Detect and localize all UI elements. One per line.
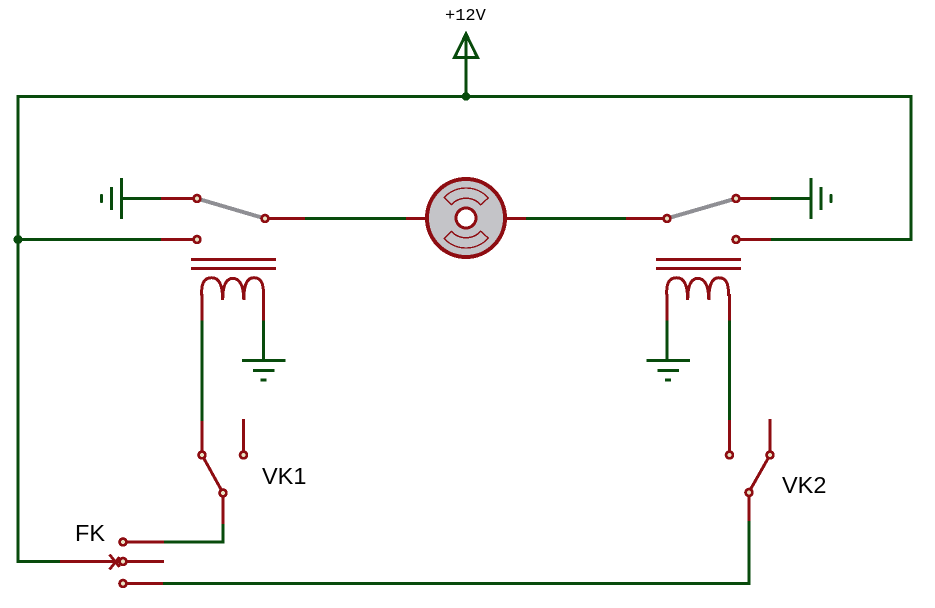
wire: K2 NO pin to battery B2 [771,197,811,200]
node: junction of +12V with top bus [462,92,471,101]
pin: VK2 right [767,452,774,459]
contact arm: K1 movable blade (gray) [197,199,265,219]
pin: K2 NO [733,195,740,202]
wire: L1 left lead down [201,321,204,422]
ground GND1 [242,361,286,381]
pin stub: K2 NO contact pin [740,197,771,200]
wire: K2 lower pin to right bus [771,238,912,241]
pin stub: FK pin 1 [126,541,164,544]
pin: K1 common [262,215,269,222]
svg-text:+12V: +12V [445,7,487,26]
pin stub: VK1 common lead [222,497,225,524]
relay coil L2 core [656,260,741,269]
pin stub: L2 right lead [728,294,731,321]
battery B2 (right) [811,178,831,219]
wire: L2 left lead to ground [666,321,669,361]
pin: K1 lower [194,236,201,243]
relay coil L2 winding [667,278,729,300]
svg-text:VK2: VK2 [782,472,826,498]
pin stub: FK pin 3 [126,582,163,585]
relay coil L1 winding [202,278,264,300]
pin stub: VK2 left pin lead [728,420,731,452]
pin stub: VK2 NC floating pin [769,419,772,451]
pin: K2 lower [733,236,740,243]
switch VK1 arm [202,455,223,493]
pin: VK2 common [746,489,753,496]
pin stub: VK2 common lead [748,496,751,521]
pin: K2 common [664,215,671,222]
pin stub: L2 left lead [666,294,669,321]
pin stub: motor left terminal [406,217,428,220]
svg-text:VK1: VK1 [262,463,306,489]
pin stub: K2 common pin [626,217,663,220]
pin stub: FK common with wiper arrow [60,555,164,570]
wire: VK1 common down and left to FK [164,524,223,542]
wire: left bus to FK common [18,560,60,563]
motor M1 [427,179,505,257]
pin: VK1 right [240,452,247,459]
wire: motor right terminal to K2 common [526,217,626,220]
pin stub: K1 lower contact pin [161,238,193,241]
pin: K1 NO [194,195,201,202]
wire: L2 right lead down [728,321,731,421]
pin: VK1 common [220,490,227,497]
pin: FK pin 1 [120,539,127,546]
pin stub: VK1 NC floating pin [242,419,245,451]
power symbol +12V [445,7,487,96]
pin stub: L1 right lead [262,294,265,321]
pin: FK common [120,558,127,565]
contact arm: K2 movable blade (gray) [667,199,736,219]
pin stub: L1 left lead [201,294,204,321]
wire: right vertical bus [910,95,913,241]
relay coil L1 core [191,260,276,269]
wire: left bus to K1 lower pin [18,238,161,241]
ground GND2 [647,361,691,381]
wire: left vertical bus [17,95,20,563]
switch VK2 arm [749,455,770,492]
wire: FK pin 3 to VK2 common (bottom bus) [163,521,749,584]
pin stub: motor right terminal [504,217,526,220]
pin: VK1 left [199,452,206,459]
pin stub: VK1 left pin lead [201,421,204,452]
wire: battery B1 to relay contact K1 pin [122,197,162,200]
pin: VK2 left [726,452,733,459]
pin: FK pin 3 [120,580,127,587]
wire: L1 right lead to ground [262,321,265,361]
node: junction on left bus [14,235,23,244]
wire: K1 common to motor left terminal [305,217,406,220]
pin stub: K2 lower contact pin [740,238,771,241]
pin stub: K1 NO contact pin [161,197,193,200]
battery B1 (left) [102,178,122,219]
pin stub: K1 common to motor [269,217,305,220]
svg-text:FK: FK [75,520,105,546]
wire: top power bus [17,95,913,98]
